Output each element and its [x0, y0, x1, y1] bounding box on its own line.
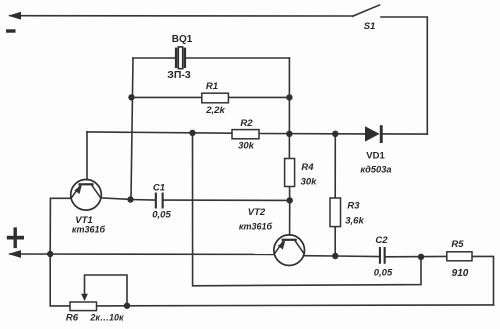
svg-text:VT2: VT2	[248, 207, 266, 218]
svg-text:R1: R1	[206, 81, 218, 92]
svg-text:BQ1: BQ1	[172, 34, 193, 45]
svg-text:3,6k: 3,6k	[345, 216, 364, 227]
svg-text:C2: C2	[375, 235, 388, 246]
svg-text:30k: 30k	[301, 177, 318, 188]
svg-text:R5: R5	[451, 239, 464, 250]
svg-text:кд503а: кд503а	[360, 165, 391, 175]
svg-text:0,05: 0,05	[374, 267, 393, 278]
svg-text:30k: 30k	[238, 141, 255, 152]
svg-text:R6: R6	[66, 313, 79, 324]
svg-text:R3: R3	[347, 201, 360, 212]
svg-text:кт361б: кт361б	[72, 225, 106, 235]
svg-text:S1: S1	[364, 21, 376, 32]
svg-text:C1: C1	[153, 183, 165, 194]
svg-text:910: 910	[452, 268, 469, 279]
svg-text:кт361б: кт361б	[239, 222, 273, 232]
svg-text:R2: R2	[240, 118, 253, 129]
svg-text:2к…10к: 2к…10к	[89, 313, 124, 323]
svg-text:ЗП-3: ЗП-3	[167, 69, 191, 81]
svg-text:VD1: VD1	[366, 151, 385, 162]
svg-text:2,2k: 2,2k	[205, 105, 225, 116]
svg-text:R4: R4	[301, 162, 314, 173]
svg-text:0,05: 0,05	[152, 210, 171, 221]
